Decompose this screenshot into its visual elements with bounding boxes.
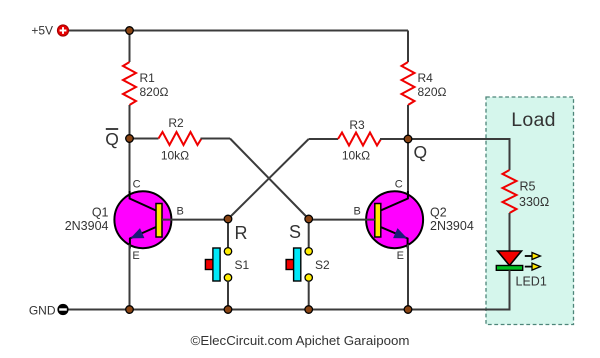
- wire: R4 top lead: [407, 31, 409, 63]
- wire: Q2 emitter to ground rail: [407, 245, 409, 310]
- wire: S2 to ground rail: [308, 281, 310, 309]
- pushbutton S1: [205, 248, 231, 282]
- svg-text:820Ω: 820Ω: [418, 85, 447, 99]
- node label Qbar: [105, 129, 119, 149]
- ground terminal: [57, 304, 68, 315]
- wire: Qbar node to Q1 collector: [129, 139, 131, 196]
- svg-text:Load: Load: [511, 109, 556, 131]
- wire: R5 to LED1: [509, 213, 511, 251]
- LED1 light arrow lower: [525, 263, 541, 270]
- transistor Q1: [114, 191, 171, 249]
- svg-text:330Ω: 330Ω: [519, 195, 549, 209]
- junction: top rail / R1: [126, 27, 134, 35]
- wire: Q node to Q2 collector: [407, 139, 409, 195]
- svg-text:Q2: Q2: [430, 205, 447, 219]
- wire: LED1 to bottom rail: [69, 270, 510, 309]
- transistor Q2: [366, 191, 423, 249]
- LED1 light arrow upper: [525, 253, 541, 260]
- wire: R1 bottom lead to Qbar node: [129, 105, 131, 139]
- load box: [486, 97, 574, 325]
- wire: S1 to ground rail: [227, 281, 229, 309]
- svg-text:2N3904: 2N3904: [65, 219, 109, 233]
- junction: ground rail / Q1 emitter: [126, 306, 134, 314]
- wire: R node to S1: [227, 219, 229, 248]
- junction: ground rail / Q2 emitter: [404, 306, 412, 314]
- svg-text:C: C: [395, 179, 403, 191]
- pushbutton S2: [286, 248, 312, 282]
- junction: ground rail / S1: [224, 306, 232, 314]
- resistor R2: [159, 132, 202, 145]
- junction: R node: [224, 215, 232, 223]
- svg-text:820Ω: 820Ω: [140, 85, 169, 99]
- wire: Q node to load box: [408, 139, 510, 170]
- svg-text:R3: R3: [349, 118, 365, 132]
- svg-text:Q1: Q1: [92, 205, 109, 219]
- wire: R1 top lead: [129, 31, 131, 63]
- svg-text:GND: GND: [29, 303, 56, 317]
- wire: Q1 emitter to ground rail: [129, 245, 131, 310]
- svg-text:B: B: [177, 206, 184, 218]
- svg-text:2N3904: 2N3904: [430, 219, 474, 233]
- resistor R1: [123, 62, 136, 105]
- svg-text:©ElecCircuit.com Apichet Garai: ©ElecCircuit.com Apichet Garaipoom: [191, 333, 410, 348]
- wire: R4 bottom lead to Q node: [407, 105, 409, 139]
- svg-text:R: R: [235, 223, 248, 243]
- svg-text:R2: R2: [168, 116, 184, 130]
- junction: ground rail / S2: [305, 306, 313, 314]
- svg-text:R5: R5: [520, 180, 536, 194]
- svg-text:Q: Q: [105, 129, 119, 149]
- power terminal +5V: [57, 25, 68, 36]
- resistor R5: [503, 170, 517, 213]
- wire: R2 right lead: [201, 138, 231, 140]
- svg-text:+5V: +5V: [31, 24, 53, 38]
- wire: diagonal from R3 to R node: [228, 139, 309, 219]
- svg-text:10kΩ: 10kΩ: [161, 149, 189, 163]
- junction: S node: [305, 215, 313, 223]
- wire: +5V top rail: [69, 30, 409, 32]
- wire: Q2 base to S node: [309, 219, 375, 221]
- wire: S node to S2: [308, 219, 310, 248]
- svg-text:B: B: [354, 206, 361, 218]
- junction: Q node: [404, 135, 412, 143]
- resistor R3: [338, 133, 381, 146]
- wire: Q1 base to R node: [162, 219, 228, 221]
- wire: R3 left lead: [309, 138, 338, 140]
- wire: diagonal from R2 to S node: [230, 139, 309, 220]
- svg-text:10kΩ: 10kΩ: [342, 149, 370, 163]
- wire: R3 right lead to Q node: [380, 138, 408, 140]
- svg-text:E: E: [397, 250, 404, 262]
- junction: Qbar node: [126, 135, 134, 143]
- svg-text:S1: S1: [235, 258, 250, 272]
- svg-text:S: S: [289, 222, 301, 242]
- svg-text:S2: S2: [315, 258, 330, 272]
- svg-text:Q: Q: [414, 142, 428, 162]
- wire: R2 left lead: [130, 138, 159, 140]
- svg-text:R1: R1: [140, 71, 156, 85]
- svg-text:E: E: [132, 250, 139, 262]
- svg-text:LED1: LED1: [516, 275, 547, 289]
- svg-text:C: C: [133, 179, 141, 191]
- svg-text:R4: R4: [418, 71, 434, 85]
- resistor R4: [402, 62, 415, 105]
- LED LED1: [496, 251, 522, 270]
